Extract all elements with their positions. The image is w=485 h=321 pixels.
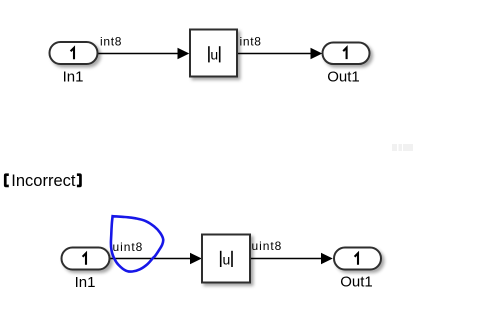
- svg-text:In1: In1: [75, 274, 96, 291]
- svg-text:int8: int8: [100, 35, 122, 49]
- svg-text:uint8: uint8: [252, 239, 283, 253]
- svg-text:uint8: uint8: [113, 240, 144, 254]
- svg-text:Out1: Out1: [340, 273, 373, 290]
- svg-text:int8: int8: [240, 35, 262, 49]
- svg-text:In1: In1: [63, 69, 84, 86]
- svg-text:Incorrect: Incorrect: [11, 172, 76, 190]
- svg-text:u: u: [223, 251, 231, 267]
- svg-text:Out1: Out1: [327, 69, 360, 86]
- svg-text:u: u: [210, 47, 218, 63]
